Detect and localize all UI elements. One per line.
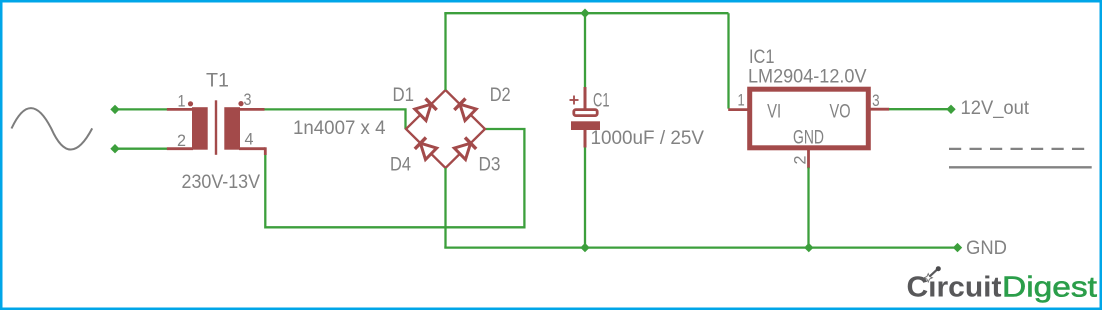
wire pin3 to bridge left vertex (265, 109, 406, 129)
svg-text:230V-13V: 230V-13V (182, 172, 261, 193)
diode D2 (454, 99, 476, 121)
svg-text:C1: C1 (593, 91, 610, 112)
svg-text:D3: D3 (479, 154, 501, 175)
svg-text:VI: VI (767, 101, 781, 122)
svg-text:T1: T1 (206, 71, 229, 92)
node C1 ground (580, 243, 589, 252)
svg-text:Digest: Digest (1002, 272, 1097, 304)
AC source sine wave (12, 108, 93, 149)
diode D1 (415, 99, 437, 121)
node AC2 (110, 144, 119, 153)
CircuitDigest logo (907, 266, 1098, 303)
diode D3 (454, 138, 476, 160)
svg-text:D1: D1 (393, 85, 415, 106)
svg-text:D4: D4 (390, 155, 411, 176)
wire (115, 108, 167, 110)
node AC1 (110, 105, 119, 114)
wire pin4 to bridge right vertex (bottom loop) (265, 129, 524, 227)
transformer T1 (167, 100, 265, 155)
wire bridge top vertex to top bus (444, 13, 446, 90)
wire bridge bottom vertex to ground bus (444, 168, 446, 248)
wire top bus down to IC pin 1 (727, 13, 729, 108)
wire IC GND down (807, 168, 809, 248)
wire (115, 148, 167, 150)
wire C1 bottom to ground bus (584, 148, 586, 248)
wire C1 top (584, 13, 586, 88)
svg-text:3: 3 (872, 91, 880, 110)
svg-text:1: 1 (738, 91, 745, 110)
svg-text:4: 4 (245, 130, 254, 149)
svg-text:2: 2 (177, 131, 186, 150)
svg-text:GND: GND (966, 238, 1007, 259)
node IC ground (804, 243, 813, 252)
node 12V_out (946, 105, 955, 114)
solid line (949, 166, 1092, 168)
wire top bus (444, 12, 728, 14)
svg-text:LM2904-12.0V: LM2904-12.0V (748, 67, 867, 88)
svg-text:12V_out: 12V_out (961, 98, 1030, 119)
node GND out (953, 243, 962, 252)
svg-text:IC1: IC1 (749, 47, 775, 68)
svg-text:VO: VO (830, 101, 851, 122)
svg-text:1n4007 x 4: 1n4007 x 4 (293, 118, 386, 139)
regulator IC1 (728, 89, 889, 168)
svg-text:3: 3 (244, 90, 252, 109)
capacitor C1 (570, 87, 601, 148)
dashed line (949, 148, 1092, 150)
wire IC VO to 12V_out (889, 108, 951, 110)
svg-text:1: 1 (178, 92, 186, 111)
svg-text:Cırcuit: Cırcuit (907, 272, 1003, 304)
svg-text:1000uF / 25V: 1000uF / 25V (591, 128, 705, 149)
wire ground bus (444, 246, 957, 248)
diode D4 (415, 138, 437, 160)
svg-text:2: 2 (791, 156, 810, 165)
bridge rectifier diamond (406, 90, 485, 168)
node top bus / C1 (580, 9, 589, 18)
svg-text:D2: D2 (490, 85, 511, 106)
svg-text:GND: GND (793, 128, 824, 149)
